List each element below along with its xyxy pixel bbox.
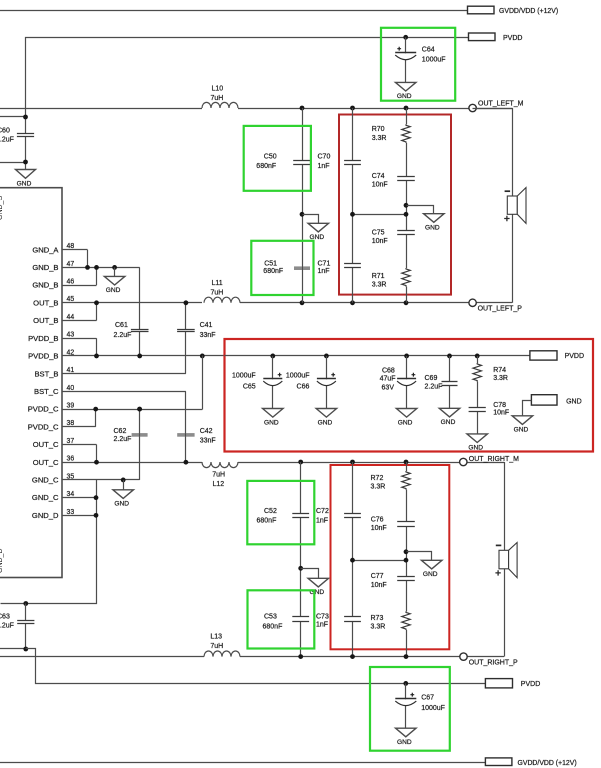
capacitor C41 33nF bootstrap BST_B to OUT_B	[185, 303, 187, 374]
svg-text:GND: GND	[514, 427, 529, 434]
svg-text:C64: C64	[422, 47, 435, 54]
svg-text:GVDD/VDD (+12V): GVDD/VDD (+12V)	[499, 8, 558, 15]
wire OUT_RIGHT_P (OUT_D) with L13	[0, 656, 204, 658]
green box around C67	[370, 667, 450, 751]
svg-text:46: 46	[67, 279, 75, 286]
capacitor C76 10nF	[397, 522, 415, 527]
svg-text:2.2uF: 2.2uF	[425, 384, 443, 391]
svg-text:GND: GND	[17, 181, 32, 188]
ground at pins 33-35	[123, 480, 125, 490]
svg-text:10nF: 10nF	[493, 410, 509, 417]
terminal OUT_RIGHT_M	[460, 458, 467, 465]
svg-text:L13: L13	[210, 634, 222, 641]
node GND stub in right snubber	[404, 549, 409, 554]
svg-text:OUT_C: OUT_C	[33, 458, 59, 467]
svg-text:GND_D: GND_D	[0, 548, 4, 573]
pin 40 BST_C	[62, 391, 186, 393]
capacitor on snubber left leg bottom	[344, 264, 361, 268]
svg-text:2.2uF: 2.2uF	[0, 136, 14, 143]
pin 34 GND_C	[62, 497, 96, 499]
node GND tap between C52 and C53	[298, 566, 303, 571]
svg-text:C51: C51	[264, 261, 277, 268]
svg-text:GVDD/VDD (+12V): GVDD/VDD (+12V)	[518, 760, 577, 767]
svg-text:10nF: 10nF	[371, 525, 387, 532]
svg-text:BST_C: BST_C	[34, 387, 59, 396]
svg-text:43: 43	[67, 332, 75, 339]
ground below C60	[16, 170, 36, 179]
svg-text:C62: C62	[114, 428, 127, 435]
terminal OUT_LEFT_M	[469, 104, 476, 111]
svg-text:BST_B: BST_B	[34, 369, 58, 378]
svg-text:OUT_B: OUT_B	[33, 298, 58, 307]
svg-text:1000uF: 1000uF	[421, 705, 445, 712]
svg-text:680nF: 680nF	[263, 623, 283, 630]
svg-text:C65: C65	[243, 384, 256, 391]
svg-text:37: 37	[67, 438, 75, 445]
pin 39 PVDD_C	[62, 409, 202, 411]
svg-text:OUT_RIGHT_M: OUT_RIGHT_M	[469, 456, 519, 463]
pin 42 PVDD_B	[62, 355, 225, 357]
node GND stub in left snubber	[404, 203, 409, 208]
svg-text:10nF: 10nF	[371, 582, 387, 589]
svg-text:C63: C63	[0, 614, 10, 621]
pin 45 OUT_B	[62, 302, 202, 304]
node junctions on OUT_LEFT_P	[300, 300, 305, 305]
ground in left snubber	[407, 206, 434, 214]
node C67 tap on bottom PVDD	[403, 681, 408, 686]
capacitor C64 1000uF electrolytic	[405, 37, 407, 82]
inductor L12 7uH	[202, 462, 238, 468]
wire snubber cross connect	[353, 214, 407, 216]
ground between C50/C51	[303, 215, 319, 224]
svg-text:R73: R73	[371, 615, 384, 622]
svg-text:3.3R: 3.3R	[371, 624, 386, 631]
pin 41 BST_B	[62, 373, 186, 375]
green box around C50	[244, 126, 311, 191]
svg-text:1000uF: 1000uF	[232, 372, 256, 379]
svg-text:33nF: 33nF	[200, 437, 216, 444]
svg-text:GND: GND	[318, 419, 333, 426]
net label PVDD middle	[530, 351, 557, 360]
svg-text:C68: C68	[382, 367, 395, 374]
svg-text:10nF: 10nF	[372, 182, 388, 189]
svg-text:38: 38	[67, 420, 75, 427]
capacitor C61 2.2uF between GND_B and PVDD_B	[139, 267, 141, 356]
node junction at C60 bottom	[23, 160, 28, 165]
wire PVDD rail into decoupling bank	[225, 355, 530, 357]
capacitor C51 680nF (in green box)	[294, 266, 310, 270]
svg-text:C50: C50	[264, 154, 277, 161]
svg-text:63V: 63V	[382, 384, 395, 391]
svg-text:680nF: 680nF	[257, 517, 277, 524]
capacitor C69 2.2uF	[447, 354, 452, 359]
net label PVDD top	[469, 33, 496, 41]
wire GND_C/GND_D rail down-left to C63	[1, 480, 97, 604]
svg-text:42: 42	[67, 349, 75, 356]
svg-text:3.3R: 3.3R	[371, 484, 386, 491]
net label GVDD/VDD (+12V) top	[468, 6, 495, 14]
svg-text:PVDD_B: PVDD_B	[28, 352, 58, 361]
svg-text:48: 48	[67, 243, 75, 250]
ground below C66	[316, 409, 337, 418]
pin 37 OUT_C	[62, 444, 97, 446]
inductor L11 7uH	[204, 297, 240, 303]
terminal OUT_LEFT_P	[469, 299, 476, 306]
svg-text:GND: GND	[106, 287, 121, 294]
resistor R74 3.3R	[475, 354, 480, 359]
svg-text:3.3R: 3.3R	[372, 282, 387, 289]
pin 47 GND_B	[62, 267, 140, 269]
svg-text:C52: C52	[264, 508, 277, 515]
resistor R72 3.3R	[401, 471, 411, 490]
wire pin43 to pin42 join	[96, 338, 98, 356]
svg-text:PVDD_B: PVDD_B	[28, 334, 58, 343]
green box around C52	[247, 481, 314, 544]
wire GND label to ground symbol	[523, 401, 532, 416]
svg-text:GND_B: GND_B	[32, 263, 58, 272]
capacitor on right snubber left leg top	[344, 514, 361, 518]
ground below C69	[439, 408, 460, 417]
wire right snubber cross connect	[353, 560, 407, 562]
node junctions on OUT_RIGHT_P	[298, 654, 303, 659]
svg-text:GND: GND	[264, 419, 279, 426]
wire right snubber right leg	[406, 462, 408, 657]
green box around C64	[381, 28, 455, 101]
svg-text:1nF: 1nF	[316, 621, 328, 628]
capacitor C65 1000uF electrolytic	[270, 354, 275, 359]
svg-text:R74: R74	[493, 367, 506, 374]
capacitor C42 33nF bootstrap BST_C to OUT_C	[185, 391, 187, 462]
svg-text:GND_B: GND_B	[32, 281, 58, 290]
net label PVDD bottom	[485, 679, 512, 688]
svg-text:PVDD: PVDD	[565, 353, 584, 360]
wire right snubber left leg	[352, 462, 354, 657]
svg-text:C73: C73	[316, 614, 329, 621]
ground below C64	[395, 82, 416, 91]
green box around C51	[251, 241, 313, 295]
wire GVDD/VDD (+12V) top rail	[0, 10, 468, 12]
capacitor C52 680nF (in green box)	[292, 514, 309, 518]
inductor L13 7uH	[204, 651, 240, 657]
wire snubber left leg	[352, 108, 354, 303]
pin 36 OUT_C	[62, 462, 202, 464]
svg-text:C71: C71	[318, 261, 331, 268]
svg-text:GND: GND	[397, 739, 412, 746]
capacitor C74 10nF	[397, 177, 415, 181]
wire pin37 to pin36 join	[96, 445, 98, 463]
node junction at C60 top	[23, 115, 28, 120]
svg-text:C76: C76	[371, 517, 384, 524]
pin 44 OUT_B	[62, 320, 97, 322]
ground between C52/C53	[301, 569, 319, 579]
svg-text:1nF: 1nF	[318, 268, 330, 275]
svg-text:GND_C: GND_C	[32, 476, 59, 485]
inductor L10 7uH	[202, 102, 238, 108]
wire right filter cap leg	[300, 462, 302, 657]
svg-text:OUT_RIGHT_P: OUT_RIGHT_P	[469, 660, 518, 667]
pin 48 GND_A	[62, 249, 88, 251]
svg-text:39: 39	[67, 402, 75, 409]
node GND tap between C50 and C51	[300, 212, 305, 217]
node C64 tap on PVDD	[403, 35, 408, 40]
svg-text:3.3R: 3.3R	[372, 135, 387, 142]
ground below C67	[396, 728, 417, 737]
pin 35 GND_C	[62, 479, 140, 481]
wire stub PVDD_D to cropped pins and jog to bottom PVDD rail	[0, 648, 26, 650]
capacitor C63 2.2uF	[25, 604, 27, 650]
svg-text:OUT_LEFT_P: OUT_LEFT_P	[478, 306, 523, 313]
svg-text:44: 44	[67, 314, 75, 321]
speaker right channel	[499, 550, 509, 569]
ground in right snubber	[407, 552, 432, 561]
svg-text:47: 47	[67, 261, 75, 268]
pin 33 GND_D	[62, 515, 96, 517]
svg-text:OUT_LEFT_M: OUT_LEFT_M	[478, 100, 524, 107]
svg-text:C60: C60	[0, 127, 10, 134]
ground at pins 46-48	[114, 267, 116, 276]
svg-text:GND_D: GND_D	[32, 511, 59, 520]
terminal OUT_RIGHT_P	[460, 653, 467, 660]
green box around C53	[248, 590, 315, 648]
capacitor C67 1000uF electrolytic	[405, 683, 407, 728]
svg-text:7uH: 7uH	[212, 471, 225, 478]
svg-text:GND: GND	[397, 93, 412, 100]
svg-text:C66: C66	[297, 384, 310, 391]
capacitor C78 10nF	[469, 408, 486, 412]
svg-text:45: 45	[67, 296, 75, 303]
svg-text:C72: C72	[316, 508, 329, 515]
svg-text:R70: R70	[372, 126, 385, 133]
wire pin38 to pin39 join	[95, 409, 97, 427]
capacitor C53 680nF (in green box)	[292, 617, 309, 622]
svg-text:C70: C70	[318, 154, 331, 161]
svg-text:1nF: 1nF	[318, 163, 330, 170]
svg-text:GND: GND	[468, 445, 483, 452]
wire stub to cropped pins (PVDD_A)	[0, 116, 26, 118]
resistor R70 3.3R	[401, 124, 411, 143]
svg-text:33nF: 33nF	[200, 332, 216, 339]
svg-text:PVDD_C: PVDD_C	[28, 405, 59, 414]
svg-text:C67: C67	[421, 694, 434, 701]
net label GVDD/VDD (+12V) bottom	[485, 758, 512, 766]
wire PVDD_C riser	[202, 356, 204, 410]
svg-text:GND: GND	[423, 571, 438, 578]
ground below GND label	[512, 416, 533, 425]
svg-text:47uF: 47uF	[380, 375, 396, 382]
svg-text:GND: GND	[441, 419, 456, 426]
pin 43 PVDD_B	[62, 338, 97, 340]
capacitor C77 10nF	[397, 577, 415, 581]
svg-text:C75: C75	[372, 229, 385, 236]
svg-text:2.2uF: 2.2uF	[0, 623, 14, 630]
svg-text:C42: C42	[200, 428, 213, 435]
svg-text:L12: L12	[213, 481, 225, 488]
capacitor on snubber left leg top	[344, 161, 361, 165]
svg-text:680nF: 680nF	[263, 268, 283, 275]
wire PVDD rail junctions	[200, 354, 205, 359]
wire stub to cropped pins (GND_A)	[0, 162, 26, 164]
svg-text:GND: GND	[425, 225, 440, 232]
svg-text:C78: C78	[493, 402, 506, 409]
svg-text:C53: C53	[264, 614, 277, 621]
svg-text:C77: C77	[371, 573, 384, 580]
svg-text:L11: L11	[212, 280, 223, 287]
pin 38 PVDD_C	[62, 426, 96, 428]
net label GND middle	[531, 395, 557, 405]
red box around left snubber network	[339, 115, 451, 295]
node junctions on OUT_RIGHT_M	[298, 460, 303, 465]
svg-text:C69: C69	[425, 375, 438, 382]
ground below C65	[263, 409, 284, 418]
wire to left speaker	[473, 109, 513, 197]
svg-text:1000uF: 1000uF	[422, 57, 446, 64]
svg-text:R72: R72	[371, 475, 384, 482]
svg-text:10nF: 10nF	[372, 238, 388, 245]
wire OUT_RIGHT_M (OUT_C) with L12	[238, 462, 504, 464]
ground below C68	[396, 409, 417, 418]
node junctions on OUT_LEFT_M	[300, 106, 305, 111]
svg-text:33: 33	[67, 509, 75, 516]
red box around PVDD decoupling bank	[225, 339, 594, 452]
svg-text:36: 36	[67, 456, 75, 463]
wire pin44 to pin45 join	[96, 303, 98, 321]
svg-text:PVDD: PVDD	[521, 681, 540, 688]
wire PVDD top rail	[26, 38, 469, 170]
svg-text:1nF: 1nF	[316, 517, 328, 524]
capacitor C50 680nF (in green box)	[293, 161, 311, 165]
op-amp U1 IC body (TPA, cropped at left)	[0, 188, 62, 578]
svg-text:GND: GND	[114, 501, 129, 508]
svg-text:40: 40	[67, 385, 75, 392]
capacitor C68 47uF 63V electrolytic	[404, 354, 409, 359]
capacitor on right snubber left leg bottom	[344, 617, 361, 622]
capacitor C60 2.2uF	[17, 134, 34, 137]
svg-text:R71: R71	[372, 273, 385, 280]
resistor R73 3.3R	[401, 611, 411, 630]
svg-text:2.2uF: 2.2uF	[114, 332, 132, 339]
node GND tap on pin47 net	[112, 265, 117, 270]
svg-text:34: 34	[67, 491, 75, 498]
svg-text:OUT_B: OUT_B	[33, 316, 58, 325]
capacitor C66 1000uF electrolytic	[324, 354, 329, 359]
svg-text:35: 35	[67, 473, 75, 480]
svg-text:C41: C41	[200, 322, 213, 329]
svg-text:GND_S: GND_S	[0, 196, 4, 220]
wire to right speaker	[504, 462, 506, 550]
pin 46 GND_B	[62, 285, 97, 287]
svg-text:PVDD_C: PVDD_C	[28, 422, 59, 431]
svg-text:7uH: 7uH	[211, 95, 224, 102]
wire OUT_LEFT_M (OUT_A) with L10	[0, 108, 202, 110]
svg-text:41: 41	[67, 367, 75, 374]
svg-text:1000uF: 1000uF	[286, 372, 310, 379]
svg-text:GND: GND	[566, 399, 582, 406]
svg-text:2.2uF: 2.2uF	[114, 436, 132, 443]
wire pin46 to pin47 join	[96, 267, 98, 285]
resistor R71 3.3R	[401, 268, 411, 287]
svg-text:OUT_C: OUT_C	[33, 440, 59, 449]
speaker left channel	[507, 196, 517, 214]
wire OUT_LEFT_P (OUT_B) with L11	[240, 302, 512, 304]
svg-text:GND_C: GND_C	[32, 493, 59, 502]
svg-text:L10: L10	[212, 86, 224, 93]
svg-text:680nF: 680nF	[256, 163, 276, 170]
node GND tap on pin35 net	[121, 478, 126, 483]
wire pin48 to pin47 join	[87, 250, 89, 268]
wire snubber right leg	[406, 108, 408, 303]
svg-text:C74: C74	[372, 173, 385, 180]
svg-text:PVDD: PVDD	[503, 35, 522, 42]
svg-text:C61: C61	[115, 322, 128, 329]
capacitor C62 2.2uF between PVDD_C and GND_C	[139, 409, 141, 480]
svg-text:7uH: 7uH	[211, 290, 224, 297]
svg-text:GND: GND	[398, 419, 413, 426]
wire left filter cap leg	[302, 108, 304, 303]
ground below C78	[467, 434, 488, 443]
red box around right snubber network	[331, 465, 450, 649]
capacitor C75 10nF	[397, 231, 415, 235]
svg-text:7uH: 7uH	[210, 643, 223, 650]
svg-text:3.3R: 3.3R	[493, 375, 508, 382]
wire GVDD/VDD (+12V) bottom rail	[0, 762, 485, 764]
svg-text:GND_A: GND_A	[32, 245, 59, 254]
